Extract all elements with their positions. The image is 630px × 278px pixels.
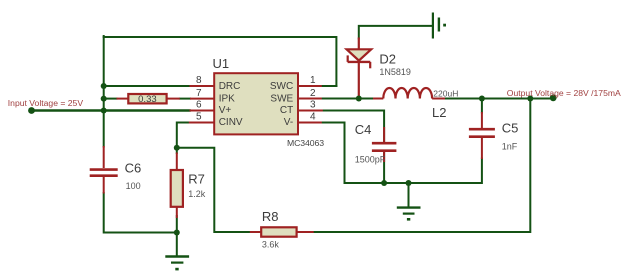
capacitor C6 bbox=[90, 146, 118, 194]
svg-text:U1: U1 bbox=[213, 56, 230, 71]
wire pin7 left segment bbox=[104, 98, 117, 100]
svg-text:Input Voltage = 25V: Input Voltage = 25V bbox=[8, 98, 84, 108]
svg-text:6: 6 bbox=[196, 100, 202, 111]
svg-text:C5: C5 bbox=[502, 121, 519, 136]
wire output node down to R8 right bbox=[313, 99, 530, 233]
wire pin2 SWE to D2 junction and inductor bbox=[322, 98, 373, 100]
resistor R8 bbox=[250, 227, 314, 236]
svg-text:SWE: SWE bbox=[270, 93, 293, 104]
svg-text:Output Voltage = 28V /175mA: Output Voltage = 28V /175mA bbox=[507, 88, 621, 98]
U1 pin stubs left bbox=[189, 86, 214, 123]
svg-text:CINV: CINV bbox=[219, 117, 243, 128]
svg-text:1N5819: 1N5819 bbox=[379, 67, 411, 77]
wire main left vertical bbox=[103, 36, 105, 147]
svg-text:DRC: DRC bbox=[219, 81, 241, 92]
U1 pin names left bbox=[219, 81, 243, 128]
svg-text:4: 4 bbox=[310, 112, 316, 123]
wire C5 top to output node bbox=[481, 99, 483, 113]
wire D2 anode up and over to battery bbox=[359, 26, 432, 39]
U1 pin names right bbox=[270, 81, 294, 128]
wire input to pin6 bbox=[32, 109, 190, 112]
U1 pin numbers right bbox=[310, 75, 316, 123]
svg-text:MC34063: MC34063 bbox=[287, 138, 324, 148]
svg-text:3.6k: 3.6k bbox=[262, 240, 280, 250]
node output terminal bbox=[550, 94, 557, 101]
wire R7 top lead net bbox=[176, 148, 178, 153]
svg-text:C6: C6 bbox=[125, 161, 142, 176]
wire C6 bottom rail to R7 ground junction bbox=[104, 193, 177, 233]
op chip U1 body bbox=[214, 73, 298, 134]
battery cell top right bbox=[433, 13, 446, 39]
wire inductor output to terminal bbox=[445, 98, 554, 100]
svg-text:100: 100 bbox=[126, 181, 141, 191]
node input terminal bbox=[28, 107, 35, 114]
wire pin7 right segment bbox=[180, 98, 190, 100]
capacitor C5 bbox=[469, 112, 495, 159]
svg-text:0.33: 0.33 bbox=[138, 94, 157, 105]
svg-text:7: 7 bbox=[196, 88, 202, 99]
wire pin8 DRC bbox=[104, 85, 190, 87]
svg-text:IPK: IPK bbox=[219, 93, 235, 104]
wire pin5 CINV to node bbox=[177, 123, 189, 148]
capacitor C4 bbox=[372, 127, 397, 162]
svg-text:1nF: 1nF bbox=[502, 142, 518, 152]
inductor L2 bbox=[373, 88, 445, 99]
svg-text:1: 1 bbox=[310, 75, 316, 86]
svg-text:1.2k: 1.2k bbox=[188, 189, 206, 199]
ground under V- rail bbox=[397, 183, 421, 221]
svg-text:5: 5 bbox=[196, 112, 202, 123]
U1 pin numbers left bbox=[196, 75, 202, 123]
wire CINV node over to R8 bbox=[177, 148, 250, 232]
wire C4 bottom to rail bbox=[383, 152, 385, 183]
resistor 0.33 current sense bbox=[117, 94, 180, 105]
svg-text:CT: CT bbox=[280, 105, 293, 116]
resistor R7 bbox=[171, 153, 183, 219]
svg-text:3: 3 bbox=[310, 100, 316, 111]
svg-text:V-: V- bbox=[284, 117, 293, 128]
wire pin3 CT over and down to C4 bbox=[323, 111, 384, 143]
svg-text:8: 8 bbox=[196, 75, 202, 86]
wire pin1 SWC stub join bbox=[322, 85, 337, 87]
svg-text:220uH: 220uH bbox=[433, 88, 458, 98]
svg-text:1500pF: 1500pF bbox=[355, 155, 386, 165]
wire pin4 V- down and along bottom rail to C5 bbox=[322, 123, 482, 184]
ground under R7 junction bbox=[165, 233, 189, 271]
U1 pin stubs right bbox=[298, 86, 323, 123]
svg-text:L2: L2 bbox=[432, 105, 446, 120]
wire R7 bottom to ground rail bbox=[176, 216, 178, 233]
diode D2 schottky bbox=[347, 38, 372, 99]
svg-text:R7: R7 bbox=[188, 171, 205, 186]
svg-text:V+: V+ bbox=[219, 105, 232, 116]
wire top rail V+ to SWC bbox=[104, 37, 337, 86]
svg-text:2: 2 bbox=[310, 88, 316, 99]
svg-text:D2: D2 bbox=[379, 52, 396, 67]
svg-text:SWC: SWC bbox=[270, 81, 293, 92]
svg-text:R8: R8 bbox=[262, 209, 279, 224]
svg-text:C4: C4 bbox=[355, 122, 372, 137]
